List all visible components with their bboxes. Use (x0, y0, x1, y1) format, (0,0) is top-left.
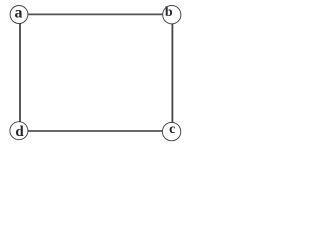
wire a-b (top edge) (26, 13, 165, 15)
svg-text:c: c (169, 122, 175, 137)
svg-text:d: d (15, 124, 24, 140)
svg-text:a: a (15, 5, 23, 22)
node a (10, 5, 28, 24)
node c (162, 122, 180, 141)
wire a-d (left edge) (19, 21, 21, 124)
wire b-c (right edge) (171, 22, 173, 125)
node d (10, 122, 28, 140)
node b (163, 5, 181, 24)
svg-text:b: b (165, 5, 173, 20)
wire d-c (bottom edge) (26, 130, 165, 132)
